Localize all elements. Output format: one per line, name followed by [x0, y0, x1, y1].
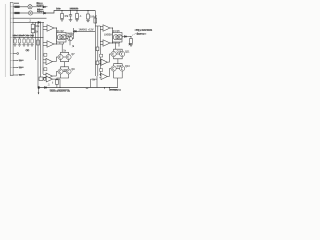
- arrow mark: [128, 44, 130, 46]
- svg-text:1N5625: 1N5625: [70, 8, 79, 11]
- svg-text:10k: 10k: [35, 25, 40, 28]
- capacitor C1: [70, 10, 71, 11]
- diode D1: [43, 6, 45, 8]
- svg-text:Q10: Q10: [117, 50, 122, 53]
- resistor R3 on drop: [32, 22, 34, 24]
- transistor Q7: [66, 55, 71, 60]
- svg-text:2N3055 HS: 2N3055 HS: [58, 90, 71, 93]
- svg-text:Q12: Q12: [117, 65, 122, 68]
- transistor Q3: [66, 38, 68, 40]
- left bus wires: [35, 22, 37, 60]
- op-amp U2B: [100, 40, 119, 46]
- input attenuator op-amp U5: [39, 77, 43, 80]
- bottom rail: [38, 87, 118, 89]
- svg-text:10k 100uF 10k 1k0: 10k 100uF 10k 1k0: [13, 34, 35, 37]
- stub: [13, 74, 17, 76]
- svg-text:Q13: Q13: [125, 65, 130, 68]
- connector stub circles: [13, 53, 17, 55]
- svg-text:LM339: LM339: [104, 33, 112, 36]
- transistor Q12: [111, 66, 116, 71]
- wire row4 with diode: [13, 21, 38, 23]
- wire: [32, 6, 43, 8]
- connector J1 bar: [10, 3, 13, 76]
- output wire: [122, 36, 125, 38]
- label smudge bars: [13, 3, 152, 91]
- dashed leader to +12V: [132, 31, 140, 36]
- emitter resistor to rail: [57, 78, 61, 80]
- svg-text:4.5V: 4.5V: [37, 4, 42, 7]
- resistor on bus: [96, 61, 99, 65]
- pair wires row1: [116, 53, 119, 55]
- base wire: [110, 69, 112, 77]
- transistor Q13: [120, 66, 125, 71]
- rail end drop: [94, 11, 96, 27]
- lamp PL1: [28, 5, 32, 9]
- op-amp U1B: [43, 41, 64, 47]
- op-amp U3A: [43, 59, 56, 65]
- emitter drop: [69, 41, 71, 45]
- svg-text:- TO + 12V BUS: - TO + 12V BUS: [135, 29, 153, 32]
- transistor pair box Q1 Q2: [57, 33, 67, 43]
- collector feed from above: [115, 43, 117, 49]
- svg-text:Q11: Q11: [125, 50, 130, 53]
- resistor R3b: [31, 30, 34, 33]
- wire to top rail: [46, 11, 96, 14]
- pair wires row2: [63, 71, 66, 73]
- diode D2: [44, 12, 46, 14]
- transistor Q8: [58, 69, 63, 74]
- op-amp U1A: [43, 25, 57, 31]
- transistor Q11: [120, 51, 125, 56]
- lamp PL2: [28, 11, 32, 15]
- ground: [60, 20, 64, 22]
- svg-text:Q4 Q5: Q4 Q5: [112, 30, 120, 33]
- resistor on bus above U3B: [44, 68, 47, 71]
- svg-text:OUT 1: OUT 1: [137, 33, 145, 36]
- svg-text:10k: 10k: [56, 8, 61, 11]
- op-amp U4B: [99, 73, 109, 79]
- arrow mark: [72, 46, 74, 48]
- labels: [13, 2, 153, 93]
- junction marks on rail: [105, 88, 110, 90]
- wire joining outputs: [112, 28, 114, 43]
- diode D4: [74, 30, 75, 32]
- resistor on bus: [96, 47, 99, 51]
- ladder drops R7-R11: [13, 37, 34, 46]
- svg-text:100uF: 100uF: [90, 16, 98, 19]
- output wire up to +12 line: [72, 28, 73, 39]
- wire: [33, 12, 44, 14]
- base wire: [56, 72, 58, 77]
- resistor on bus above U3A: [44, 53, 47, 56]
- op-amp U2A: [100, 25, 112, 31]
- collector feed from above: [61, 44, 63, 52]
- wire: [45, 6, 47, 8]
- resistor on bus above U4A: [100, 54, 103, 57]
- transistor Q6: [58, 55, 63, 60]
- transistor pair box Q4 Q5: [113, 33, 123, 43]
- op-amp U4A: [99, 59, 109, 65]
- wire row2: [13, 12, 28, 14]
- base wire: [56, 57, 58, 62]
- resistor on bus: [37, 40, 40, 45]
- connector pin ticks: [10, 7, 13, 75]
- svg-text:47k: 47k: [64, 15, 69, 18]
- page edge line: [4, 4, 6, 77]
- resistor R4: [61, 11, 63, 14]
- node: [61, 10, 62, 11]
- stub: [13, 60, 17, 62]
- transistor Q9: [66, 69, 71, 74]
- resistor R6: [94, 18, 97, 23]
- resistor R5: [87, 10, 88, 11]
- wire row3: [13, 17, 46, 19]
- diode D5: [125, 36, 127, 38]
- resistor R1: [14, 6, 19, 8]
- diode D3: [38, 21, 40, 23]
- pair wires row2: [116, 68, 119, 70]
- svg-text:45 2N3055: 45 2N3055: [109, 89, 122, 92]
- right bus wires: [94, 26, 96, 76]
- base wire: [110, 54, 112, 62]
- svg-text:4.5V: 4.5V: [37, 11, 42, 14]
- svg-text:1N4001 +12V: 1N4001 +12V: [79, 28, 94, 31]
- svg-text:Q1 Q2: Q1 Q2: [56, 30, 64, 33]
- diode D6 on rail: [45, 87, 47, 89]
- resistor R12: [130, 37, 132, 39]
- junction: [38, 86, 40, 88]
- label INPUT: [0, 0, 1, 1]
- pair wires row1: [63, 56, 66, 58]
- wire row1: [13, 6, 28, 8]
- mid vertical: [117, 59, 119, 64]
- resistor R2: [14, 12, 19, 14]
- ladder rail: [13, 36, 43, 38]
- op-amp U3B: [43, 73, 56, 79]
- mid vertical: [64, 62, 66, 67]
- wire joining outputs: [56, 28, 58, 44]
- capacitor C2: [76, 10, 77, 11]
- transistor Q10: [111, 51, 116, 56]
- resistor on bus above U4B: [100, 69, 103, 72]
- emitter drop: [118, 43, 120, 47]
- stub: [13, 67, 17, 69]
